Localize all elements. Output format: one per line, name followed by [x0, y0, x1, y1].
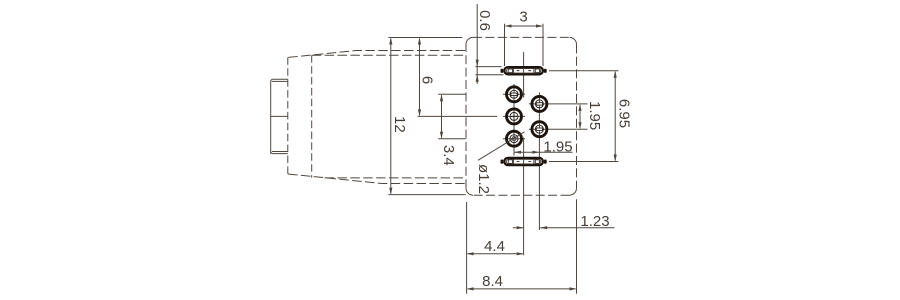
top slot outer stadium [504, 67, 543, 74]
bottom slot [501, 158, 547, 165]
side view inner dashed vertical [311, 55, 313, 178]
extension line top (12 and 6 dims) [389, 37, 463, 39]
left pin column centerline [513, 84, 515, 156]
svg-text:6.95: 6.95 [616, 99, 633, 128]
side view cap middle line [271, 115, 288, 117]
bottom slot right end tab [544, 160, 547, 164]
svg-text:1.23: 1.23 [580, 213, 609, 230]
bottom slot inner ticks [514, 159, 534, 164]
extension lines for 0.6 (slot edges) [476, 66, 502, 68]
extension line bottom (12 dim) [389, 194, 466, 196]
right pin column centerline [538, 93, 540, 231]
extension lines for 6.95 [549, 70, 618, 72]
dimension line 1.95 horizontal (pin columns) [514, 151, 573, 153]
side view top outline (slope then flat) [288, 51, 466, 58]
extension verticals below view [466, 202, 468, 294]
bottom slot centerline [523, 138, 525, 256]
front view body dashed rounded rectangle [466, 37, 577, 195]
top slot [501, 67, 547, 74]
top slot right end tab [544, 69, 547, 73]
dimension line 1.23 (arrows outside) [513, 227, 615, 229]
dimension line 4.4 [468, 253, 523, 255]
pin middle-left [507, 109, 522, 124]
svg-text:0.6: 0.6 [476, 10, 493, 31]
dimension line 8.4 [468, 288, 576, 290]
leader line for pin diameter (dia 1.2) [478, 132, 525, 161]
top slot center divider [523, 68, 525, 74]
side view bottom outline (slope then flat) [288, 174, 466, 184]
side view cap bottom flange [271, 152, 288, 154]
top slot contact squares [508, 69, 512, 73]
top slot centerline [523, 52, 525, 98]
dimension line 3 (top) [506, 25, 543, 27]
front view body solid corner arcs [466, 37, 577, 195]
bottom slot outer stadium [504, 158, 543, 165]
svg-text:3.4: 3.4 [440, 145, 457, 166]
dimension line 6 [419, 39, 421, 116]
svg-text:ø1.2: ø1.2 [475, 164, 492, 194]
dimension line 6.95 [614, 72, 616, 161]
bottom slot inner stadium [507, 159, 541, 164]
side view left dashed vertical [287, 57, 289, 174]
pin top-right [532, 96, 547, 111]
bottom slot left end tab [501, 160, 504, 164]
svg-text:6: 6 [419, 76, 436, 84]
extension line for 6 (middle pin row) [418, 115, 498, 117]
right pin column line crossing bottom slot [538, 159, 540, 165]
pin bottom-left [507, 131, 522, 146]
dimension line 1.95 vertical (right pins, arrows inside) [579, 105, 581, 128]
bottom slot contact squares [508, 160, 512, 164]
bottom slot center divider [523, 159, 525, 165]
pin top-left [507, 87, 522, 102]
svg-text:1.95: 1.95 [543, 138, 572, 155]
dimension line 3.4 [441, 95, 443, 137]
side view cap top flange [271, 79, 288, 81]
side view cap left vertical edge [270, 81, 272, 154]
svg-text:12: 12 [391, 116, 408, 133]
svg-text:8.4: 8.4 [482, 273, 503, 290]
dimension line 12 [390, 39, 392, 194]
pin bottom-right [532, 122, 547, 137]
top slot inner ticks [514, 68, 534, 73]
pin crosshair horizontals [503, 93, 525, 95]
extension lines for 3 [504, 24, 506, 66]
side view bottom inner line [325, 177, 467, 179]
svg-text:1.95: 1.95 [586, 101, 603, 130]
dimension line 0.6 (arrows outside) [476, 4, 478, 84]
svg-text:4.4: 4.4 [484, 238, 505, 255]
extension lines for 3.4 (top and bottom left pins) [438, 93, 465, 95]
top slot left end tab [501, 69, 504, 73]
svg-text:3: 3 [519, 9, 527, 26]
side view top inner line [312, 54, 466, 56]
top slot inner stadium [507, 69, 541, 74]
